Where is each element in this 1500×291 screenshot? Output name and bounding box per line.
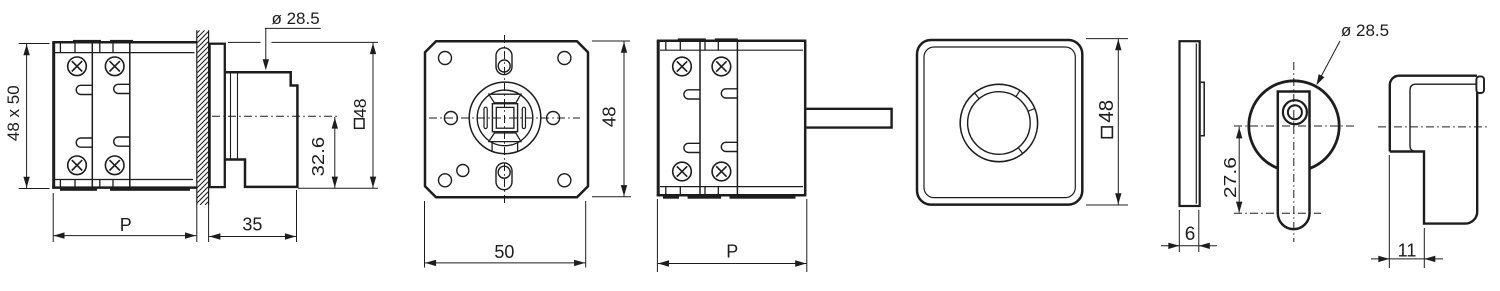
svg-text:48: 48 <box>1095 100 1118 123</box>
svg-text:P: P <box>120 215 132 235</box>
svg-text:32.6: 32.6 <box>308 137 328 177</box>
svg-text:35: 35 <box>242 215 262 235</box>
svg-text:ø 28.5: ø 28.5 <box>1341 21 1389 40</box>
svg-text:ø 28.5: ø 28.5 <box>271 9 319 28</box>
svg-text:6: 6 <box>1185 224 1196 245</box>
svg-text:27.6: 27.6 <box>1220 157 1240 198</box>
svg-text:48 x 50: 48 x 50 <box>4 85 23 141</box>
svg-text:P: P <box>726 242 738 262</box>
svg-text:50: 50 <box>494 242 514 262</box>
svg-text:11: 11 <box>1398 241 1417 261</box>
svg-text:48: 48 <box>598 107 619 128</box>
svg-text:48: 48 <box>350 98 370 117</box>
